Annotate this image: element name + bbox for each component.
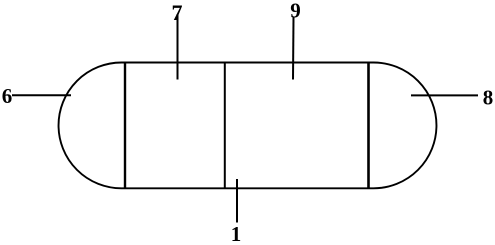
svg-text:8: 8 bbox=[483, 86, 494, 110]
svg-text:1: 1 bbox=[231, 222, 242, 245]
svg-text:9: 9 bbox=[290, 0, 301, 23]
left head wall bbox=[124, 63, 126, 189]
right head wall bbox=[367, 63, 370, 189]
svg-text:6: 6 bbox=[2, 84, 13, 108]
leader line 8 bbox=[411, 94, 478, 96]
leader line 6 bbox=[12, 94, 71, 96]
svg-text:7: 7 bbox=[172, 0, 183, 25]
middle partition bbox=[224, 63, 226, 189]
leader line 7 bbox=[177, 14, 179, 80]
leader line 9 bbox=[292, 17, 295, 80]
vessel shell (capsule outline) bbox=[59, 63, 437, 189]
leader line 1 bbox=[236, 179, 238, 223]
